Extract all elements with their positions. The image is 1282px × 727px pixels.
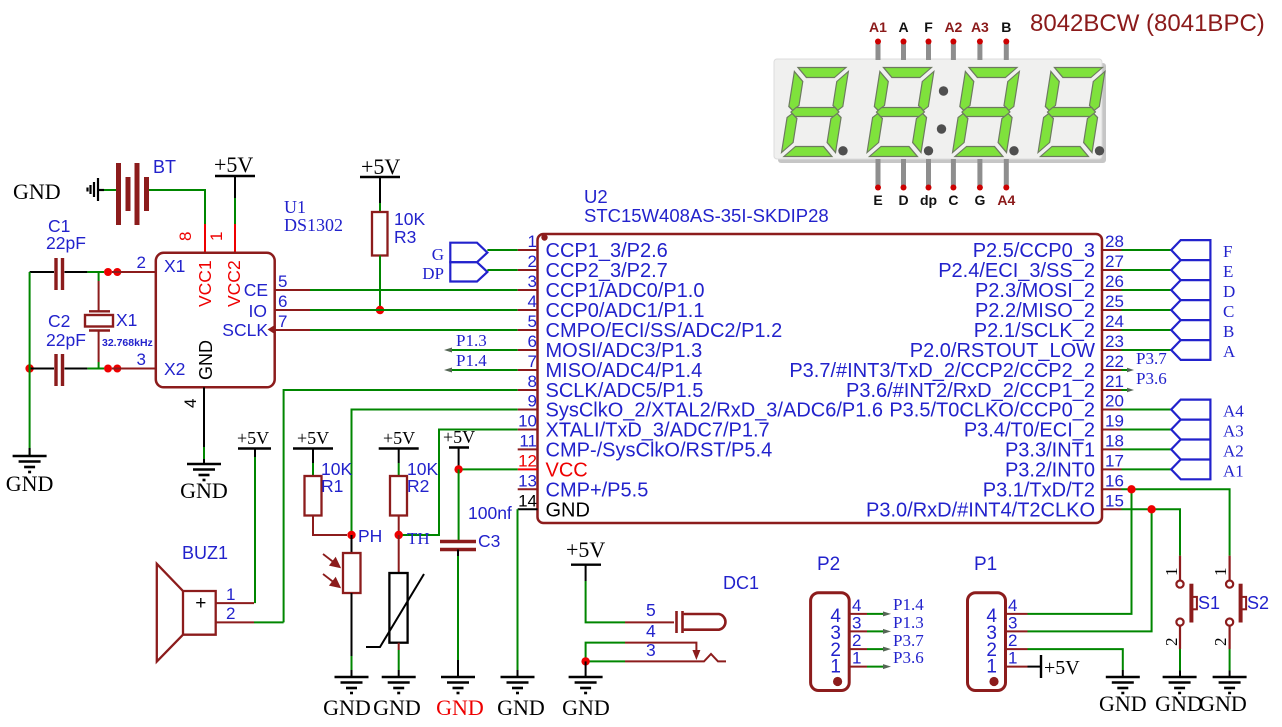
svg-text:R3: R3 bbox=[394, 227, 416, 247]
ground (battery mini earth) bbox=[88, 178, 105, 201]
svg-text:U2: U2 bbox=[584, 186, 608, 207]
svg-text:P2.3/MOSI_2: P2.3/MOSI_2 bbox=[975, 280, 1095, 302]
DC1 pin4 arrow bbox=[692, 650, 700, 660]
display shadow bbox=[778, 63, 1106, 163]
svg-text:7: 7 bbox=[278, 312, 287, 331]
bus arrow G bbox=[450, 243, 487, 263]
wire P1.4 stub bbox=[449, 369, 518, 371]
chip U2 body bbox=[538, 234, 1103, 523]
switch S2 bbox=[1226, 556, 1246, 649]
U2 pin1 marker dot bbox=[541, 234, 547, 240]
svg-text:CMP+/P5.5: CMP+/P5.5 bbox=[546, 479, 649, 501]
svg-text:P2.5/CCP0_3: P2.5/CCP0_3 bbox=[973, 240, 1095, 262]
wire buzzer pin2 bbox=[216, 621, 254, 623]
svg-text:DC1: DC1 bbox=[723, 573, 759, 593]
wire DP to pin2 bbox=[487, 269, 517, 271]
svg-text:MISO/ADC4/P1.4: MISO/ADC4/P1.4 bbox=[546, 360, 703, 382]
svg-text:GND: GND bbox=[562, 695, 610, 720]
node X1 top junction bbox=[104, 268, 112, 276]
wire P3.6 stub bbox=[1122, 389, 1132, 391]
node pin15 junction bbox=[1147, 505, 1155, 513]
svg-text:12: 12 bbox=[518, 451, 537, 470]
svg-text:X1: X1 bbox=[116, 310, 137, 330]
svg-text:5: 5 bbox=[278, 272, 287, 291]
display bottom pins bbox=[878, 159, 1006, 186]
svg-text:P3.7/#INT3/TxD_2/CCP2/CCP2_2: P3.7/#INT3/TxD_2/CCP2/CCP2_2 bbox=[789, 360, 1095, 382]
svg-text:GND: GND bbox=[497, 695, 545, 720]
resistor R2 bbox=[390, 476, 407, 516]
U2 right pin names bbox=[789, 240, 1095, 521]
svg-text:+5V: +5V bbox=[361, 154, 400, 179]
wire C1 right bbox=[65, 271, 105, 273]
node PH junction bbox=[347, 531, 355, 539]
wire S2 bottom bbox=[1229, 649, 1231, 677]
svg-text:E: E bbox=[1223, 262, 1233, 281]
ground (PH) bbox=[335, 677, 369, 693]
P1 pin3 wire to pin15 net bbox=[1006, 509, 1152, 631]
pin 8 stub U1 bbox=[204, 224, 206, 252]
wire IO net (U1.6 to U2.4) bbox=[275, 309, 518, 311]
svg-text:1: 1 bbox=[226, 585, 235, 604]
capacitor C3 bbox=[440, 542, 476, 550]
svg-text:GND: GND bbox=[546, 499, 590, 521]
node X2 junction bbox=[104, 365, 112, 373]
wire junction to PH bbox=[351, 535, 353, 553]
svg-text:10K: 10K bbox=[394, 209, 425, 229]
svg-text:3: 3 bbox=[528, 272, 537, 291]
node pin16 junction bbox=[1127, 485, 1135, 493]
svg-text:GND: GND bbox=[1155, 691, 1203, 716]
svg-text:7: 7 bbox=[528, 352, 537, 371]
wire C2 right bbox=[65, 368, 105, 370]
svg-text:23: 23 bbox=[1105, 332, 1124, 351]
svg-text:C: C bbox=[948, 192, 958, 208]
svg-text:1: 1 bbox=[986, 657, 997, 678]
svg-text:BUZ1: BUZ1 bbox=[182, 543, 228, 563]
svg-text:GND: GND bbox=[6, 471, 54, 496]
U2 right pin numbers bbox=[1105, 232, 1124, 510]
P1 inside numbers bbox=[986, 606, 997, 678]
svg-text:25: 25 bbox=[1105, 292, 1124, 311]
+5V symbol (BUZ1) bbox=[237, 428, 271, 457]
svg-text:GND: GND bbox=[1099, 691, 1147, 716]
wire P1.6 net bbox=[352, 410, 518, 536]
svg-text:GND: GND bbox=[323, 695, 371, 720]
svg-text:32.768kHz: 32.768kHz bbox=[102, 337, 153, 349]
svg-text:P1: P1 bbox=[974, 554, 997, 575]
buzzer divider bbox=[182, 591, 184, 635]
svg-text:CCP0/ADC1/P1.1: CCP0/ADC1/P1.1 bbox=[546, 300, 705, 322]
svg-text:F: F bbox=[1223, 242, 1232, 261]
svg-text:5: 5 bbox=[528, 312, 537, 331]
svg-text:1: 1 bbox=[852, 649, 861, 668]
P1 pin2 wire to gnd bbox=[1006, 649, 1123, 677]
crystal X1 bbox=[85, 311, 113, 330]
svg-text:A: A bbox=[1223, 342, 1236, 361]
wire pin19 bbox=[1122, 429, 1172, 431]
ground (P1 pin2) bbox=[1106, 677, 1140, 693]
digit 2 bbox=[866, 68, 934, 157]
P1 pin4 wire to pin16 net bbox=[1006, 489, 1132, 614]
wire SCLK net (U1.7 to U2.5) bbox=[275, 329, 518, 331]
svg-text:BT: BT bbox=[153, 157, 176, 177]
svg-text:5: 5 bbox=[646, 600, 656, 620]
svg-text:G: G bbox=[974, 192, 985, 208]
svg-text:DS1302: DS1302 bbox=[284, 215, 343, 235]
wire +5V to VCC2 bbox=[234, 198, 236, 224]
svg-text:8: 8 bbox=[528, 372, 537, 391]
wire junction to TH bbox=[398, 535, 400, 573]
svg-text:GND: GND bbox=[436, 695, 484, 720]
svg-text:3: 3 bbox=[1008, 614, 1017, 633]
svg-text:X1: X1 bbox=[164, 256, 185, 276]
ground (left rail) bbox=[13, 456, 47, 472]
svg-text:P3.6: P3.6 bbox=[1136, 369, 1167, 388]
wire GND pin14 bbox=[517, 509, 519, 677]
bus arrow group A4..A1 bbox=[1171, 400, 1210, 480]
svg-text:P3.7: P3.7 bbox=[1136, 349, 1167, 368]
display top labels bbox=[869, 19, 1011, 35]
svg-text:+5V: +5V bbox=[1044, 657, 1080, 679]
svg-text:C: C bbox=[1223, 302, 1234, 321]
node left rail junction bbox=[25, 364, 33, 372]
wire VCC net bbox=[459, 468, 518, 470]
P1 outside numbers bbox=[1008, 596, 1017, 668]
svg-text:28: 28 bbox=[1105, 232, 1124, 251]
wire pin27 bbox=[1122, 269, 1172, 271]
svg-text:S1: S1 bbox=[1198, 593, 1220, 613]
svg-text:C3: C3 bbox=[478, 531, 500, 551]
digit 3 bbox=[952, 68, 1020, 157]
svg-text:6: 6 bbox=[278, 292, 287, 311]
svg-text:D: D bbox=[898, 192, 908, 208]
switch S1 bbox=[1176, 556, 1197, 649]
bus arrow group F..A bbox=[1171, 240, 1210, 360]
wire C2 left bbox=[30, 368, 54, 370]
U2 left pin numbers bbox=[518, 232, 537, 510]
wire pin17 bbox=[1122, 468, 1172, 470]
svg-text:C2: C2 bbox=[48, 311, 70, 331]
svg-text:+: + bbox=[195, 593, 206, 614]
svg-text:22pF: 22pF bbox=[46, 330, 86, 350]
resistor R3 bbox=[372, 212, 388, 256]
svg-text:+5V: +5V bbox=[566, 537, 605, 562]
P2 pin1 dot bbox=[833, 677, 842, 686]
U2 left pin names bbox=[546, 240, 884, 521]
svg-text:A4: A4 bbox=[997, 192, 1015, 208]
wire pin15 net bbox=[1122, 509, 1181, 555]
+5V symbol (DC1) bbox=[566, 537, 605, 581]
svg-text:F: F bbox=[924, 19, 933, 35]
svg-text:CCP1_3/P2.6: CCP1_3/P2.6 bbox=[546, 240, 668, 262]
wire PH bottom bbox=[351, 593, 353, 677]
wire CE net (U1.5 to U2.3) bbox=[275, 289, 518, 291]
ground (S1) bbox=[1163, 677, 1197, 693]
P2 pin1 wire bbox=[849, 666, 887, 668]
svg-text:XTALI/TxD_3/ADC7/P1.7: XTALI/TxD_3/ADC7/P1.7 bbox=[546, 420, 770, 442]
P2 pin3 wire bbox=[849, 630, 887, 632]
svg-text:IO: IO bbox=[249, 301, 267, 321]
svg-text:P2.2/MISO_2: P2.2/MISO_2 bbox=[975, 300, 1095, 322]
svg-text:VCC: VCC bbox=[546, 459, 588, 481]
svg-text:+5V: +5V bbox=[383, 428, 415, 448]
svg-text:P3.5/T0CLKO/CCP0_2: P3.5/T0CLKO/CCP0_2 bbox=[889, 400, 1095, 422]
svg-text:GND: GND bbox=[180, 478, 228, 503]
wire pin28 bbox=[1122, 249, 1172, 251]
svg-text:dp: dp bbox=[920, 192, 937, 208]
wire R1 bottom bbox=[313, 516, 347, 536]
wire P1.3 stub bbox=[449, 349, 518, 351]
svg-text:P1.4: P1.4 bbox=[456, 351, 487, 370]
svg-text:1: 1 bbox=[830, 657, 841, 678]
capacitor C2 bbox=[56, 354, 63, 386]
svg-text:14: 14 bbox=[518, 491, 537, 510]
svg-text:P3.4/T0/ECI_2: P3.4/T0/ECI_2 bbox=[964, 420, 1095, 442]
wire DC1 pin5 bbox=[586, 581, 674, 622]
svg-text:GND: GND bbox=[1199, 691, 1247, 716]
svg-text:4: 4 bbox=[1008, 596, 1017, 615]
svg-text:19: 19 bbox=[1105, 412, 1124, 431]
digit 4 bbox=[1037, 68, 1105, 157]
svg-text:E: E bbox=[873, 192, 882, 208]
wire pin23 bbox=[1122, 349, 1172, 351]
svg-text:4: 4 bbox=[852, 596, 861, 615]
PH light arrows bbox=[323, 554, 340, 587]
wire +5V to R2 bbox=[398, 463, 400, 476]
ground (TH) bbox=[382, 677, 416, 693]
U2 right pin stubs bbox=[1102, 250, 1122, 509]
svg-text:P1.4: P1.4 bbox=[893, 595, 924, 614]
svg-text:3: 3 bbox=[852, 614, 861, 633]
digit 1 bbox=[781, 68, 849, 157]
svg-text:B: B bbox=[1001, 19, 1011, 35]
svg-text:G: G bbox=[432, 245, 444, 264]
U2 left pin stubs bbox=[518, 250, 538, 509]
svg-text:6: 6 bbox=[528, 332, 537, 351]
DC jack DC1 bbox=[677, 611, 726, 633]
wire pin16 net bbox=[1122, 489, 1230, 555]
capacitor C1 bbox=[56, 258, 63, 290]
svg-text:18: 18 bbox=[1105, 431, 1124, 450]
display top pin dots bbox=[875, 39, 1009, 45]
ground (U1) bbox=[187, 464, 221, 480]
svg-text:CMP-/SysClkO/RST/P5.4: CMP-/SysClkO/RST/P5.4 bbox=[546, 439, 773, 461]
P1 pin1 wire to +5V bbox=[1006, 666, 1028, 668]
svg-text:9: 9 bbox=[528, 392, 537, 411]
svg-text:2: 2 bbox=[1008, 631, 1017, 650]
display bottom labels bbox=[873, 192, 1015, 208]
wire pin20 bbox=[1122, 409, 1172, 411]
U1 GND pin wire bbox=[203, 387, 205, 463]
wire buzzer pin1 bbox=[216, 457, 255, 603]
pin 1 stub U1 bbox=[234, 224, 236, 252]
svg-text:A3: A3 bbox=[1223, 422, 1244, 441]
svg-text:P2.4/ECI_3/SS_2: P2.4/ECI_3/SS_2 bbox=[938, 260, 1095, 282]
+5V symbol (P1) sideways bbox=[1041, 655, 1080, 679]
svg-text:1: 1 bbox=[207, 232, 226, 241]
+5V symbol (R1) bbox=[293, 428, 333, 463]
svg-text:P3.0/RxD/#INT4/T2CLKO: P3.0/RxD/#INT4/T2CLKO bbox=[866, 499, 1095, 521]
svg-text:1: 1 bbox=[1162, 568, 1181, 577]
svg-text:4: 4 bbox=[646, 621, 656, 641]
svg-text:2: 2 bbox=[1162, 638, 1181, 647]
svg-text:P2: P2 bbox=[817, 554, 840, 575]
svg-text:PH: PH bbox=[358, 526, 382, 546]
TH diagonal bbox=[366, 574, 424, 647]
dp dot 3 bbox=[1009, 146, 1018, 155]
svg-text:P1.3: P1.3 bbox=[456, 331, 487, 350]
display panel bbox=[774, 59, 1102, 159]
svg-text:STC15W408AS-35I-SKDIP28: STC15W408AS-35I-SKDIP28 bbox=[584, 205, 829, 226]
display bottom pin dots bbox=[875, 185, 1009, 191]
svg-text:2: 2 bbox=[528, 252, 537, 271]
wire G to pin1 bbox=[487, 249, 517, 251]
P2 outside numbers bbox=[852, 596, 861, 668]
P2 pin2 wire bbox=[849, 648, 887, 650]
svg-text:GND: GND bbox=[13, 179, 61, 204]
svg-text:1: 1 bbox=[528, 232, 537, 251]
svg-text:24: 24 bbox=[1105, 312, 1124, 331]
node TH junction bbox=[395, 531, 403, 539]
wire +5V to R1 bbox=[312, 463, 314, 476]
chip U1 body bbox=[156, 253, 275, 387]
wire DC1 pin4 bbox=[586, 643, 697, 662]
svg-text:SysClkO_2/XTAL2/RxD_3/ADC6/P1.: SysClkO_2/XTAL2/RxD_3/ADC6/P1.6 bbox=[546, 400, 884, 422]
svg-text:R1: R1 bbox=[321, 476, 343, 496]
wire C3 bottom bbox=[457, 550, 459, 678]
wire left rail bbox=[29, 272, 31, 455]
svg-text:CMPO/ECI/SS/ADC2/P1.2: CMPO/ECI/SS/ADC2/P1.2 bbox=[546, 320, 783, 342]
buzzer BUZ1 bbox=[157, 564, 216, 662]
svg-text:P3.3/INT1: P3.3/INT1 bbox=[1005, 439, 1095, 461]
ground (S2) bbox=[1213, 677, 1247, 693]
svg-text:GND: GND bbox=[196, 340, 216, 380]
wire R3 to IO net bbox=[379, 256, 381, 311]
ground (pin14) bbox=[501, 677, 535, 693]
svg-text:26: 26 bbox=[1105, 272, 1124, 291]
svg-text:CE: CE bbox=[244, 280, 268, 300]
colon bottom dot bbox=[937, 124, 946, 133]
svg-text:D: D bbox=[1223, 282, 1235, 301]
wire battery left bbox=[104, 189, 116, 191]
svg-text:VCC1: VCC1 bbox=[195, 260, 215, 307]
svg-text:CCP1/ADC0/P1.0: CCP1/ADC0/P1.0 bbox=[546, 280, 705, 302]
colon top dot bbox=[939, 86, 948, 95]
dp dot 4 bbox=[1095, 146, 1104, 155]
svg-text:GND: GND bbox=[373, 695, 421, 720]
node DC1 junction bbox=[581, 657, 589, 665]
connector P1 bbox=[968, 593, 1006, 691]
svg-text:R2: R2 bbox=[407, 476, 429, 496]
wire DC1 gnd bbox=[585, 661, 587, 677]
svg-text:VCC2: VCC2 bbox=[224, 260, 244, 307]
wire crystal top bbox=[98, 272, 100, 311]
svg-text:SCLK: SCLK bbox=[222, 320, 268, 340]
wire R2 bottom bbox=[398, 516, 400, 536]
wire to U1 X1 pin 2 bbox=[112, 271, 156, 273]
wire C1 left bbox=[30, 271, 54, 273]
SCLK input arrow bbox=[268, 325, 275, 334]
P2 inside numbers bbox=[830, 606, 841, 678]
connector P2 bbox=[811, 593, 850, 691]
svg-text:16: 16 bbox=[1105, 471, 1124, 490]
svg-text:+5V: +5V bbox=[214, 152, 253, 177]
wire +5V to R3 bbox=[379, 203, 381, 212]
resistor R1 bbox=[305, 476, 322, 516]
svg-text:MOSI/ADC3/P1.3: MOSI/ADC3/P1.3 bbox=[546, 340, 703, 362]
wire P1.5 net bbox=[284, 390, 518, 622]
svg-text:P3.1/TxD/T2: P3.1/TxD/T2 bbox=[983, 479, 1095, 501]
svg-text:2: 2 bbox=[1211, 638, 1230, 647]
svg-text:A3: A3 bbox=[971, 19, 989, 35]
+5V symbol (VCC2) bbox=[214, 152, 255, 198]
ground (DC1) bbox=[569, 677, 603, 693]
ground (C3) bbox=[441, 677, 475, 693]
svg-text:A4: A4 bbox=[1223, 402, 1244, 421]
wire TH bottom bbox=[398, 643, 400, 677]
svg-text:10: 10 bbox=[518, 412, 537, 431]
P2 pin4 wire bbox=[849, 613, 887, 615]
wire S1 bottom bbox=[1179, 649, 1181, 677]
node VCC junction bbox=[454, 465, 462, 473]
svg-text:2: 2 bbox=[852, 631, 861, 650]
+5V symbol (R3) bbox=[360, 154, 400, 203]
+5V symbol (VCC pin12) bbox=[443, 427, 475, 469]
wire pin26 bbox=[1122, 289, 1172, 291]
svg-text:13: 13 bbox=[518, 471, 537, 490]
wire pin25 bbox=[1122, 309, 1172, 311]
svg-text:A2: A2 bbox=[944, 19, 962, 35]
svg-text:+5V: +5V bbox=[443, 427, 475, 447]
photoresistor PH bbox=[343, 553, 361, 593]
svg-text:A: A bbox=[898, 19, 908, 35]
svg-text:A1: A1 bbox=[869, 19, 887, 35]
svg-text:2: 2 bbox=[226, 604, 235, 623]
svg-text:A1: A1 bbox=[1223, 461, 1244, 480]
svg-text:4: 4 bbox=[528, 292, 537, 311]
svg-text:20: 20 bbox=[1105, 392, 1124, 411]
svg-text:P2.0/RSTOUT_LOW: P2.0/RSTOUT_LOW bbox=[910, 340, 1095, 362]
svg-text:X2: X2 bbox=[164, 359, 185, 379]
svg-text:11: 11 bbox=[519, 431, 537, 450]
svg-text:3: 3 bbox=[646, 640, 656, 660]
wire left rail tail bbox=[29, 448, 31, 456]
wire pin18 bbox=[1122, 448, 1172, 450]
svg-text:CCP2_3/P2.7: CCP2_3/P2.7 bbox=[546, 260, 668, 282]
svg-text:S2: S2 bbox=[1247, 593, 1269, 613]
wire P3.7 stub bbox=[1122, 369, 1132, 371]
bus arrow DP bbox=[450, 262, 487, 281]
wire C3 top bbox=[458, 469, 460, 540]
wire pin24 bbox=[1122, 329, 1172, 331]
wire DC1 pin3 bbox=[586, 654, 726, 661]
svg-text:U1: U1 bbox=[284, 197, 306, 217]
wire crystal bottom bbox=[98, 331, 100, 369]
svg-text:P2.1/SCLK_2: P2.1/SCLK_2 bbox=[974, 320, 1095, 342]
svg-text:3: 3 bbox=[137, 350, 146, 369]
svg-text:+5V: +5V bbox=[297, 428, 329, 448]
svg-text:P3.2/INT0: P3.2/INT0 bbox=[1005, 459, 1095, 481]
svg-text:2: 2 bbox=[137, 253, 146, 272]
svg-text:15: 15 bbox=[1105, 491, 1124, 510]
svg-text:TH: TH bbox=[407, 529, 430, 548]
svg-text:+5V: +5V bbox=[237, 428, 269, 448]
svg-text:B: B bbox=[1223, 322, 1234, 341]
battery BT bbox=[119, 163, 147, 225]
svg-text:21: 21 bbox=[1105, 372, 1124, 391]
wire to U1 X2 pin 3 bbox=[112, 368, 156, 370]
svg-text:A2: A2 bbox=[1223, 441, 1244, 460]
